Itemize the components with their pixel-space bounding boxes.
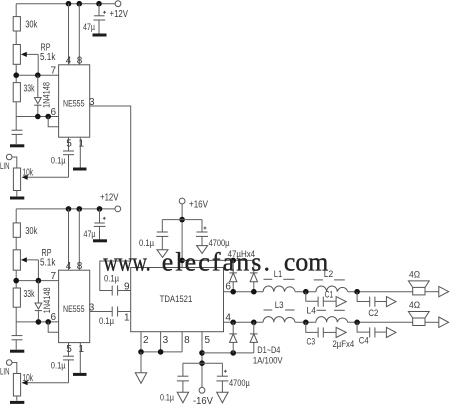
node rail1 pin8 junction — [77, 1, 83, 7]
resistor 30k (2) — [13, 223, 38, 237]
node pin6 pin2 2 — [45, 319, 51, 325]
svg-text:33k: 33k — [24, 84, 36, 95]
wire pin4 output — [224, 321, 264, 323]
capacitor timing (2) — [12, 336, 23, 350]
wire 33k2 to timing cap — [15, 307, 17, 335]
svg-text:0.1µ: 0.1µ — [51, 360, 66, 371]
ground bar under 47µ mid — [93, 239, 107, 242]
svg-text:NE555: NE555 — [63, 99, 85, 110]
wire pin4 to rail1 — [66, 4, 72, 67]
pin 2 stub — [141, 332, 149, 352]
wire 30k to RP 2 — [15, 237, 17, 250]
wire pin8 to rail1 — [77, 4, 83, 67]
svg-text:5: 5 — [205, 335, 211, 346]
capacitor C4 branch — [357, 322, 386, 346]
svg-text:4700µ: 4700µ — [229, 378, 250, 389]
capacitor C1 branch — [306, 290, 336, 307]
wire pin5 cap 2 — [22, 343, 74, 386]
svg-text:5: 5 — [66, 344, 72, 355]
terminal LIN 1 — [0, 154, 17, 171]
ground triangle right of C1 — [336, 297, 346, 307]
wire pin7 net 2 — [16, 280, 58, 282]
capacitor 0.1µ coupling 2 — [99, 307, 131, 328]
wire -16V caps branch — [183, 362, 223, 364]
wire +16V to catch diodes — [182, 259, 254, 261]
svg-text:47µ: 47µ — [83, 22, 95, 33]
wire 33k to timing cap — [15, 102, 17, 130]
svg-text:LIN: LIN — [0, 161, 10, 171]
svg-text:L3: L3 — [275, 300, 284, 311]
terminal -16V — [193, 387, 213, 407]
svg-text:4: 4 — [66, 261, 72, 272]
svg-text:1: 1 — [79, 138, 85, 149]
svg-text:C4: C4 — [359, 336, 369, 347]
svg-text:9: 9 — [124, 282, 130, 293]
wire -16V to lower diodes — [202, 352, 254, 354]
svg-text:6: 6 — [51, 107, 57, 118]
svg-text:4Ω: 4Ω — [409, 300, 420, 311]
ground bar under 10k (2) — [10, 401, 24, 404]
pin 5 stub — [202, 332, 211, 388]
wire left rail down to 30k — [15, 4, 17, 17]
wire pin6 net — [16, 116, 58, 118]
svg-text:NE555: NE555 — [63, 304, 85, 315]
wire L4 to speaker 2 — [348, 321, 413, 323]
svg-text:www.: www. — [103, 248, 150, 277]
wire pin5 cap 1 — [22, 137, 74, 180]
svg-text:8: 8 — [77, 261, 83, 272]
op-amp U2 NE555 (2) — [59, 270, 90, 342]
capacitor 47µ mid — [84, 209, 106, 240]
node rail2 pin8 junction — [77, 206, 83, 212]
ground triangle right of C3 — [336, 327, 346, 337]
svg-text:L1: L1 — [274, 269, 283, 280]
node pin7 left — [13, 72, 19, 78]
potentiometer RP 5.1k (1) — [13, 43, 56, 76]
node pin6 D2 — [251, 289, 257, 295]
node pin4 D3 — [230, 320, 236, 326]
svg-text:6: 6 — [51, 312, 57, 323]
ground triangle right of speaker 1 — [439, 286, 449, 296]
svg-text:1: 1 — [79, 344, 85, 355]
wire pin8 to rail2 — [77, 209, 83, 272]
resistor 33k (1) — [13, 83, 35, 102]
svg-text:2: 2 — [143, 335, 149, 346]
svg-text:30k: 30k — [25, 226, 38, 237]
svg-text:C3: C3 — [307, 337, 316, 348]
ground triangle right of C2 — [386, 297, 396, 307]
wire L2 to speaker 1 — [348, 291, 413, 293]
ground triangle under pin2 — [135, 373, 146, 384]
svg-text:2µFx4: 2µFx4 — [333, 339, 355, 350]
node pin4 D4 — [251, 320, 257, 326]
svg-text:+12V: +12V — [100, 193, 119, 204]
node pin7 left 2 — [13, 278, 19, 284]
svg-text:47µ: 47µ — [84, 229, 96, 240]
capacitor 0.1µ coupling 1 — [104, 274, 131, 296]
svg-text:5: 5 — [66, 138, 72, 149]
capacitor 4700µ at +16V — [196, 220, 230, 249]
wire pin2 branch 2 — [48, 322, 58, 332]
speaker 4ohm bottom — [408, 300, 438, 326]
wire RP2 to node7 — [15, 270, 17, 288]
wire pin7 net — [16, 74, 58, 76]
resistor 30k (1) — [13, 17, 38, 31]
diode D3 lower catch — [229, 322, 237, 353]
svg-text:7: 7 — [51, 66, 57, 77]
capacitor 0.1µ at -16V — [160, 363, 189, 403]
svg-text:-16V: -16V — [193, 396, 213, 407]
node pin5 diode rail — [199, 350, 205, 356]
ground bar pin1 (2) — [73, 373, 87, 376]
terminal +12V top — [110, 1, 129, 20]
inductor L4 — [307, 306, 348, 323]
wire +12V rail 2 — [16, 208, 114, 210]
svg-text:0.1µ: 0.1µ — [160, 392, 174, 403]
svg-text:elecfans.: elecfans. — [162, 248, 270, 277]
node lower diode D3 bottom — [230, 350, 236, 356]
wire 30k to RP — [15, 31, 17, 45]
svg-text:5.1k: 5.1k — [40, 52, 56, 63]
wire pin6 output — [224, 291, 264, 293]
node B2 (L4/C4) — [354, 320, 360, 326]
node rail2 cap junction — [97, 206, 103, 212]
wire L3 to L4 — [295, 321, 316, 323]
node A (L1/L2/C1) — [303, 289, 309, 295]
ground triangle right of C4 — [386, 327, 396, 337]
svg-text:4Ω: 4Ω — [409, 270, 420, 281]
node pin6 pin2 — [45, 114, 51, 120]
wire +12V rail 1 — [16, 3, 115, 5]
node pin6 D1 — [230, 289, 236, 295]
svg-text:C2: C2 — [368, 308, 378, 319]
potentiometer 10k (2) — [13, 373, 33, 401]
svg-text:L4: L4 — [307, 306, 316, 317]
svg-text:0.1µ: 0.1µ — [99, 316, 114, 327]
svg-text:8: 8 — [77, 56, 83, 67]
ground triangle under 0.1µ bottom — [177, 392, 188, 403]
potentiometer RP 5.1k (2) — [13, 248, 56, 281]
svg-text:8: 8 — [184, 335, 190, 346]
wire pin4 to rail2 — [66, 209, 72, 272]
node A2 (L3/L4/C3) — [303, 320, 309, 326]
pin 8 stub — [182, 332, 190, 352]
inductor L2 — [314, 269, 348, 292]
ground triangle under 4700µ top — [197, 246, 208, 254]
potentiometer 10k (1) — [13, 168, 33, 197]
ground triangle under 0.1µ top — [157, 250, 168, 258]
svg-text:1N4148: 1N4148 — [42, 287, 52, 313]
pin 3 stub — [161, 332, 169, 352]
node B (L2/C2) — [354, 289, 360, 295]
svg-text:6: 6 — [225, 282, 231, 293]
ground bar under 47µ top — [93, 34, 107, 37]
svg-text:10k: 10k — [23, 168, 34, 179]
wire pin2 branch — [48, 117, 58, 127]
svg-text:1A/100V: 1A/100V — [253, 356, 283, 367]
svg-text:D1~D4: D1~D4 — [257, 345, 280, 356]
svg-text:30k: 30k — [25, 20, 38, 31]
svg-text:0.1µ: 0.1µ — [51, 155, 66, 166]
wire left rail2 down to 30k — [15, 209, 17, 223]
node rail1 cap junction — [96, 1, 102, 7]
terminal +16V — [179, 198, 208, 267]
svg-text:1: 1 — [124, 313, 130, 324]
svg-text:C1: C1 — [325, 290, 334, 301]
wire L1 to L2 — [295, 291, 316, 293]
node pin2 gnd — [138, 349, 144, 355]
node +16V caps junction — [179, 217, 185, 223]
svg-text:33k: 33k — [24, 289, 36, 300]
op-amp U1 NE555 (1) — [59, 65, 90, 137]
node rail1 pin4 junction — [66, 1, 72, 7]
inductor L3 — [263, 300, 295, 322]
capacitor 0.1µ at +16V — [139, 220, 168, 250]
svg-text:7: 7 — [51, 271, 57, 282]
svg-text:LIN: LIN — [0, 367, 10, 377]
node diode D1 top — [230, 258, 236, 264]
svg-text:1N4148: 1N4148 — [42, 82, 52, 108]
node pin7 diode — [35, 72, 41, 78]
ground bar under timing cap 2 — [10, 350, 24, 353]
node pin5 caps junction — [199, 360, 205, 366]
ground triangle under 4700µ bottom — [217, 392, 228, 403]
capacitor C3 branch — [306, 322, 336, 347]
wire pin6 net 2 — [16, 321, 58, 323]
ground triangle right of speaker 2 — [439, 317, 449, 327]
terminal LIN 2 — [0, 360, 17, 377]
ground bar pin1 (1) — [73, 168, 87, 171]
wire RP to node7 — [15, 64, 17, 82]
diode D4 lower catch — [250, 322, 258, 353]
svg-text:10k: 10k — [23, 373, 34, 384]
diode 1N4148 (2) — [35, 281, 52, 322]
ground bar under 10k (1) — [10, 197, 24, 200]
capacitor 4700µ at -16V — [216, 363, 250, 392]
inductor L1 — [263, 269, 295, 292]
wire pin2 down — [140, 352, 142, 373]
svg-text:+16V: +16V — [189, 200, 208, 211]
resistor 33k (2) — [13, 288, 35, 307]
wire pins 2-3-8 ground — [141, 351, 182, 353]
svg-text:5.1k: 5.1k — [40, 258, 56, 269]
node rail2 pin4 junction — [66, 206, 72, 212]
wire pin1 ground 1 — [79, 137, 85, 167]
svg-text:4: 4 — [66, 56, 72, 67]
wire +16V cap branch — [162, 219, 202, 221]
node pin6 diode — [35, 114, 41, 120]
diode 1N4148 (1) — [34, 75, 51, 116]
node +16V diode rail junction — [179, 258, 185, 264]
wire pin3 output 1 — [89, 97, 131, 291]
diode D2 upper catch — [250, 260, 258, 291]
op-amp U3 TDA1521 — [131, 268, 224, 332]
watermark www.elecfans.com — [103, 248, 328, 277]
speaker 4ohm top — [408, 270, 438, 295]
capacitor 47µ top — [83, 4, 106, 34]
capacitor C2 branch — [357, 292, 386, 319]
svg-text:3: 3 — [163, 335, 169, 346]
wire pin3 output 2 — [89, 302, 112, 313]
node pin6 diode 2 — [36, 319, 42, 325]
terminal +12V mid — [100, 193, 121, 212]
capacitor timing (1) — [12, 130, 23, 144]
node pin3 gnd — [158, 349, 164, 355]
svg-text:com: com — [284, 248, 328, 277]
node pin7 diode 2 — [36, 278, 42, 284]
svg-text:+12V: +12V — [110, 9, 129, 20]
ground bar under timing cap 1 — [10, 144, 24, 147]
diode D1 upper catch — [229, 260, 237, 291]
svg-text:TDA1521: TDA1521 — [160, 294, 193, 305]
wire pin1 ground 2 — [79, 343, 85, 373]
